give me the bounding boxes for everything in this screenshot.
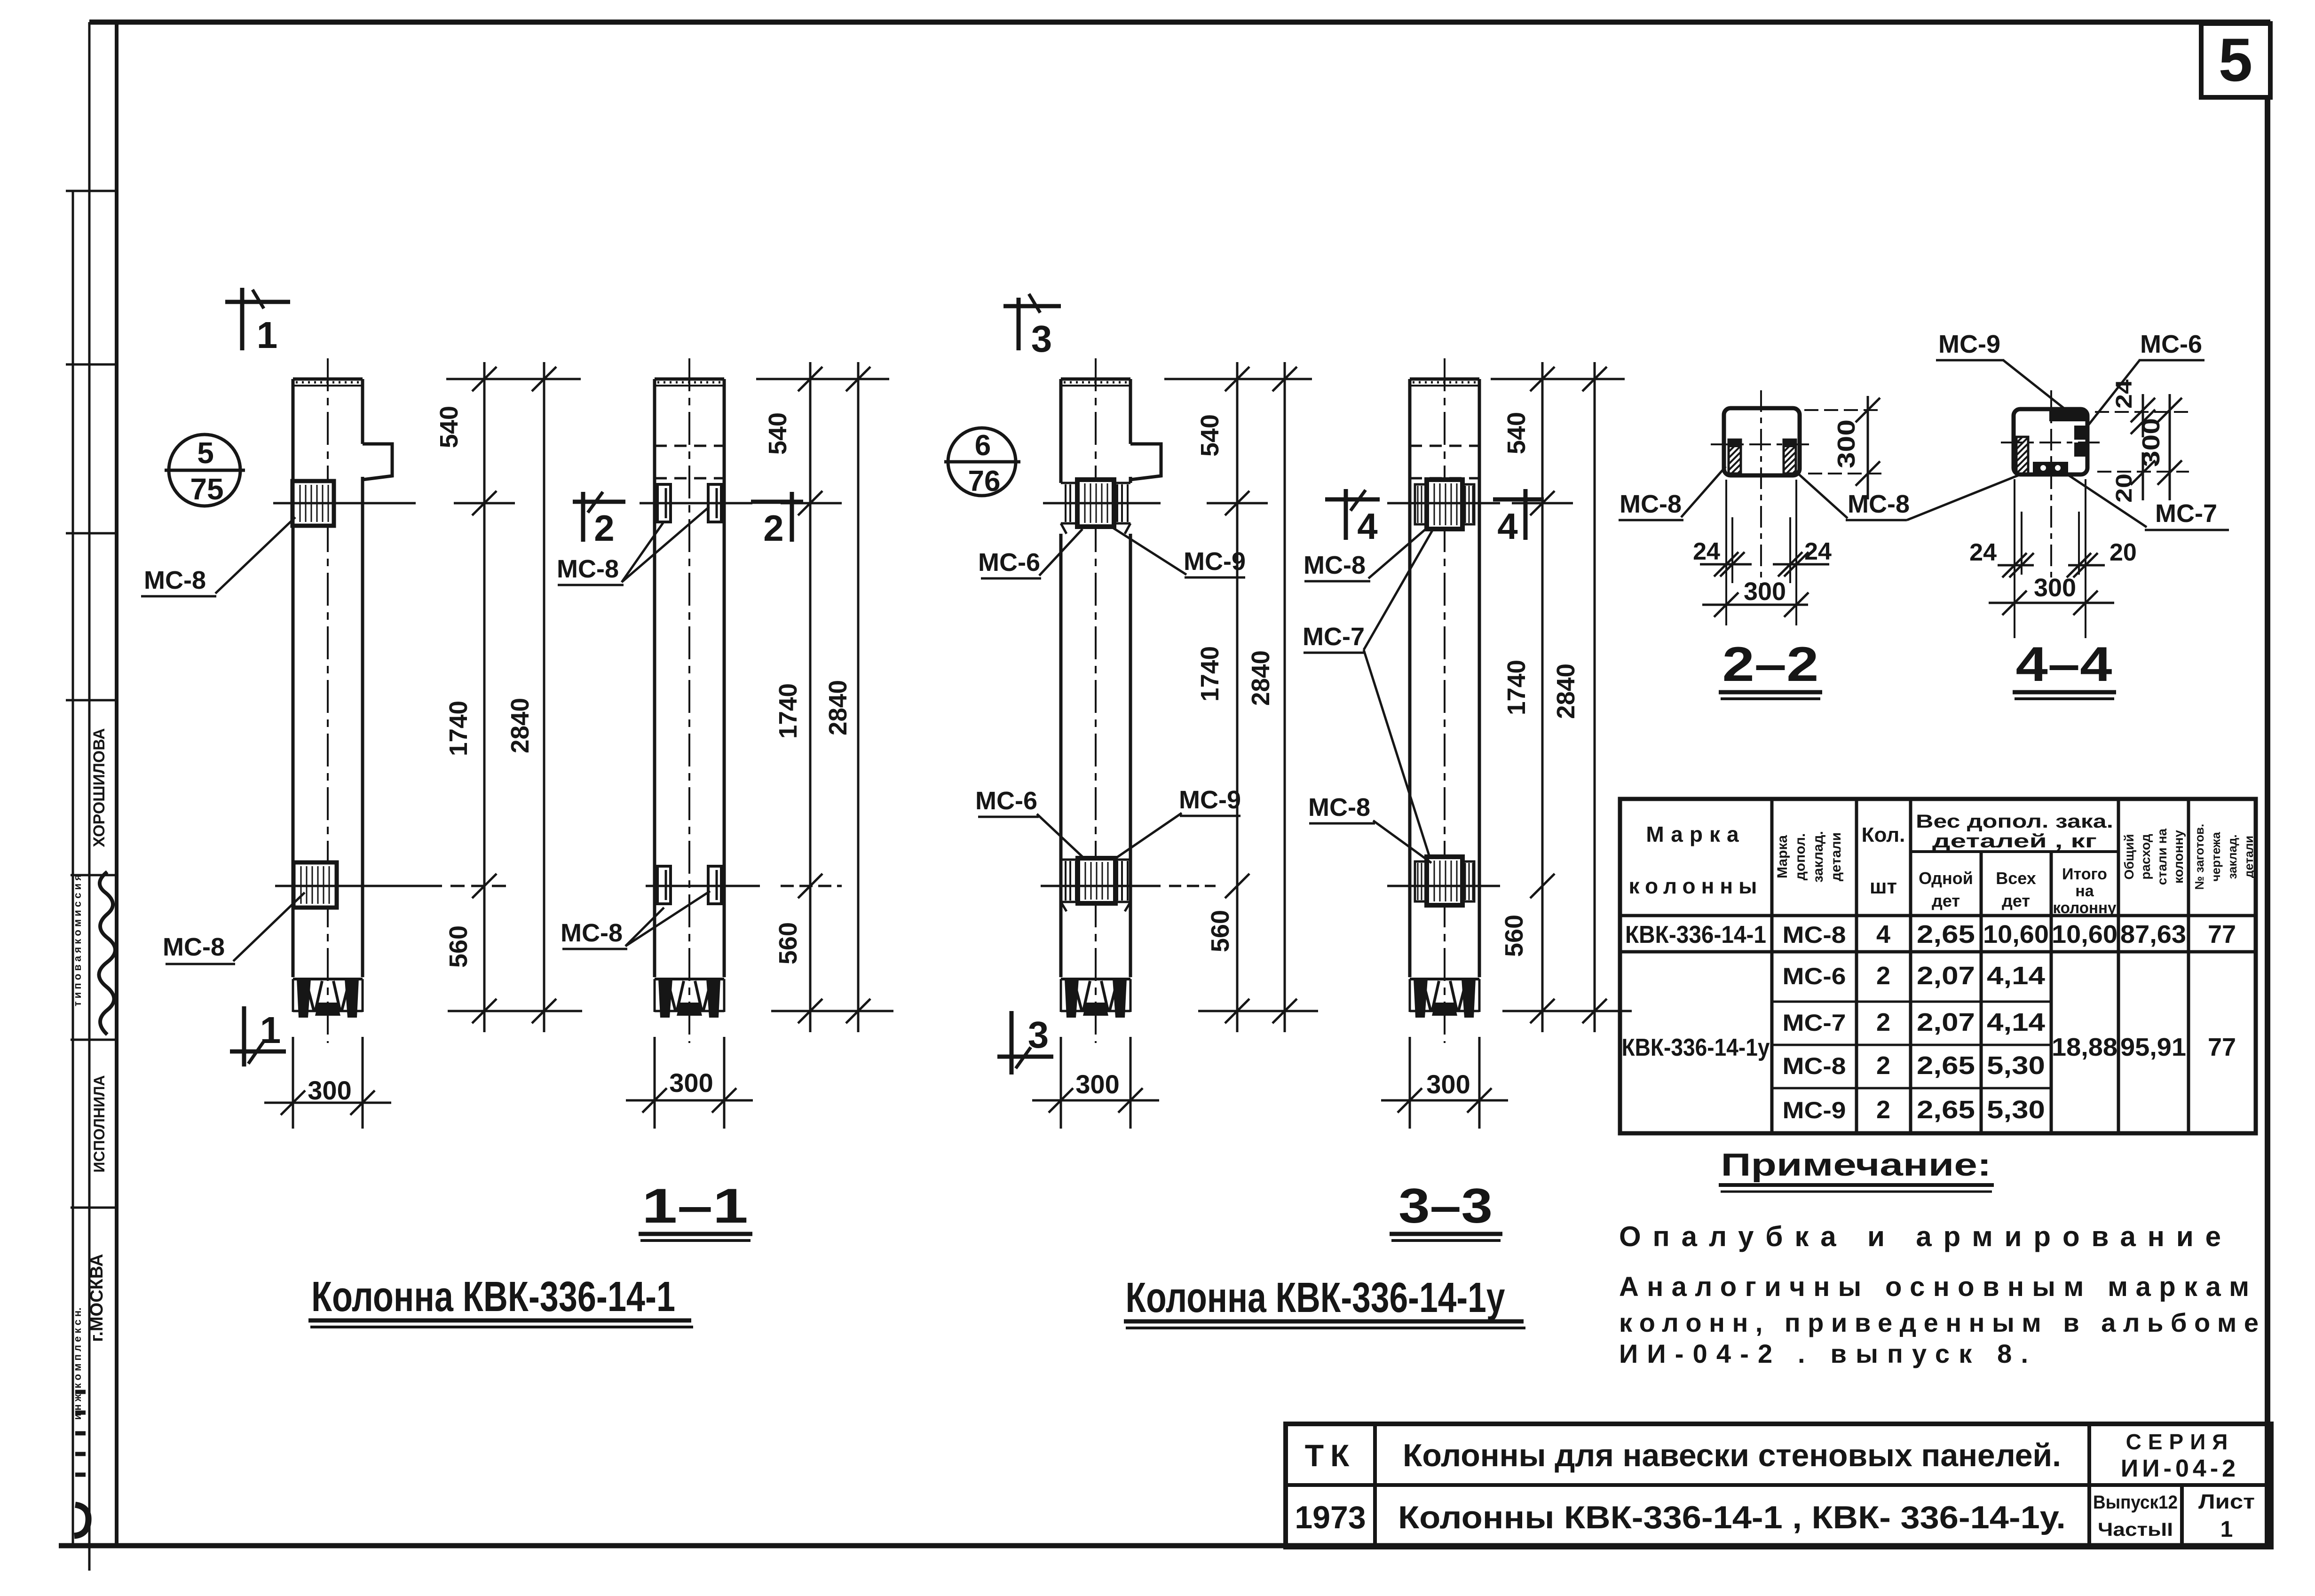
title block row divider <box>1286 1483 2271 1487</box>
svg-text:24: 24 <box>1693 538 1720 565</box>
svg-text:МС-9: МС-9 <box>1783 1097 1846 1123</box>
section 4-4 horizontal centerline <box>2001 442 2105 443</box>
column KVK-336-14-1u front view body <box>1059 379 1063 483</box>
svg-text:МС-8: МС-8 <box>1783 1053 1846 1079</box>
svg-text:24: 24 <box>1969 539 1997 566</box>
leader MC-9 lower <box>1116 813 1182 858</box>
svg-text:Марка: Марка <box>1646 822 1745 846</box>
strip divider 4 <box>71 874 117 877</box>
svg-text:540: 540 <box>764 412 792 455</box>
svg-text:300: 300 <box>2034 574 2076 602</box>
strip divider 1 <box>66 363 117 366</box>
column KVK-336-14-1 front view body <box>292 379 295 977</box>
svg-text:колонну: колонну <box>2171 830 2186 884</box>
svg-text:3: 3 <box>1031 318 1052 360</box>
svg-text:МС-7: МС-7 <box>1783 1010 1846 1036</box>
svg-text:18,88: 18,88 <box>2052 1033 2117 1061</box>
svg-text:детали: детали <box>2242 836 2256 878</box>
centerline through lower embeds (col4) <box>1387 885 1500 887</box>
svg-text:560: 560 <box>774 922 802 964</box>
svg-text:МС-6: МС-6 <box>975 787 1037 815</box>
column centerline (vertical) <box>327 358 329 1043</box>
svg-text:расход: расход <box>2138 834 2153 879</box>
svg-text:1740: 1740 <box>1196 646 1224 702</box>
svg-text:Колонна КВК-336-14-1у: Колонна КВК-336-14-1у <box>1126 1274 1505 1321</box>
svg-text:1740: 1740 <box>1502 660 1531 715</box>
svg-text:560: 560 <box>1500 915 1528 957</box>
table vertical lines <box>1770 799 1774 1133</box>
svg-text:300: 300 <box>1426 1069 1470 1099</box>
svg-text:колонну: колонну <box>2053 899 2117 917</box>
svg-text:4: 4 <box>1357 506 1377 547</box>
dimension line 2840 (col4) <box>1594 362 1596 1032</box>
svg-text:2,65: 2,65 <box>1917 1051 1975 1080</box>
column foot (col4) <box>1410 978 1479 980</box>
svg-text:Общий: Общий <box>2122 834 2136 879</box>
table subrow dividers <box>1772 1001 2051 1003</box>
svg-text:ТК: ТК <box>1305 1438 1356 1473</box>
svg-text:2: 2 <box>1876 1051 1890 1080</box>
svg-text:3: 3 <box>1028 1014 1049 1056</box>
leader MC-9 (section 4-4) <box>2003 360 2066 410</box>
svg-text:2: 2 <box>594 507 614 549</box>
title block col divider 1 <box>1373 1424 1377 1547</box>
svg-text:МС-9: МС-9 <box>1179 786 1241 814</box>
svg-text:стали на: стали на <box>2155 829 2169 885</box>
embed plate MC-6/MC-9 lower (front) <box>1078 858 1115 903</box>
border frame left <box>115 22 119 1546</box>
strip divider 3 <box>66 699 117 702</box>
svg-text:деталей , кг: деталей , кг <box>1932 831 2097 852</box>
centerline through upper assembly <box>1043 502 1161 505</box>
lower embed assembly hatch band (col3) <box>1061 859 1130 861</box>
embed plate MC-8 upper-left (edge) <box>657 484 671 522</box>
svg-text:2,65: 2,65 <box>1917 920 1975 948</box>
detail circle 6/76 <box>948 428 1016 496</box>
dimension 24 right (2-2) <box>1773 563 1829 566</box>
svg-text:20: 20 <box>2112 474 2137 503</box>
svg-text:4: 4 <box>1497 506 1517 547</box>
svg-text:5,30: 5,30 <box>1987 1051 2045 1080</box>
svg-text:560: 560 <box>444 925 473 968</box>
svg-text:МС-8: МС-8 <box>144 566 206 594</box>
svg-text:Одной: Одной <box>1919 869 1973 888</box>
svg-text:2840: 2840 <box>1552 664 1580 719</box>
bottom tick line (col4) <box>1502 1010 1632 1012</box>
title block frame <box>1286 1424 2271 1547</box>
dimension line 540/1740/560 (col3) <box>1236 362 1239 1032</box>
svg-text:ХОРОШИЛОВА: ХОРОШИЛОВА <box>90 728 108 847</box>
lower embed side hatch left (col4) <box>1415 861 1427 901</box>
svg-text:МС-6: МС-6 <box>1783 963 1846 989</box>
column KVK-336-14-1u side view body <box>1408 379 1412 977</box>
svg-text:т и п о в а я к о м и с с и: т и п о в а я к о м и с с и я <box>71 875 83 1006</box>
svg-text:ИИ-04-2: ИИ-04-2 <box>2121 1455 2239 1482</box>
svg-text:Итого: Итого <box>2062 865 2107 883</box>
leader MC-6 (section 4-4) <box>2086 360 2140 427</box>
svg-text:ИСПОЛНИЛА: ИСПОЛНИЛА <box>91 1075 108 1172</box>
svg-text:2840: 2840 <box>824 680 852 735</box>
tick at 540 (col2) <box>781 502 842 505</box>
section 2-2 horizontal centerline <box>1711 443 1809 445</box>
section cut line 2-2 <box>640 502 752 505</box>
title block col divider 2 <box>2087 1424 2091 1547</box>
column foot (side view) <box>655 978 724 980</box>
embed plate MC-8 lower (col4) <box>1427 857 1462 905</box>
leader MC-6 upper <box>1039 529 1082 576</box>
table header sub divider <box>1911 850 2118 853</box>
centerline through lower assembly (col3) <box>1041 885 1161 887</box>
svg-text:Колонны КВК-336-14-1 , КВК-: Колонны КВК-336-14-1 , КВК- 336-14-1у. <box>1398 1500 2066 1535</box>
svg-text:2: 2 <box>763 507 783 549</box>
svg-text:300: 300 <box>1833 419 1860 468</box>
svg-text:75: 75 <box>190 472 223 506</box>
svg-text:№ заготов.: № заготов. <box>2192 824 2206 890</box>
svg-text:4: 4 <box>1876 920 1890 948</box>
svg-text:95,91: 95,91 <box>2120 1033 2186 1061</box>
svg-text:Колонна КВК-336-14-1: Колонна КВК-336-14-1 <box>311 1273 675 1320</box>
dimension 24 top right (4-4) <box>2095 411 2189 413</box>
table row 1 bottom line <box>1620 950 2256 954</box>
strip divider 2 <box>66 532 117 535</box>
svg-text:Всех: Всех <box>1996 869 2036 888</box>
svg-text:560: 560 <box>1206 910 1234 952</box>
svg-text:4–4: 4–4 <box>2016 637 2112 692</box>
section mark 1 (top) <box>225 300 290 304</box>
svg-text:87,63: 87,63 <box>2120 920 2186 948</box>
svg-text:чертежа: чертежа <box>2209 832 2223 882</box>
leader MC-8 lower pair <box>625 908 664 946</box>
leader MC-8 upper pair <box>622 523 663 582</box>
svg-text:СЕРИЯ: СЕРИЯ <box>2126 1430 2235 1454</box>
dimension 300 bottom (4-4) <box>1989 602 2114 604</box>
svg-text:Лист: Лист <box>2198 1490 2255 1513</box>
tick at 540 (col4) <box>1512 502 1573 505</box>
left strip inner line <box>88 22 91 1571</box>
svg-text:540: 540 <box>1196 414 1224 457</box>
svg-text:Примечание:: Примечание: <box>1721 1147 1991 1183</box>
svg-text:4,14: 4,14 <box>1987 962 2045 990</box>
svg-text:МС-9: МС-9 <box>1938 330 2000 358</box>
column foot (col3) <box>1061 978 1130 980</box>
svg-text:дет: дет <box>2002 891 2030 910</box>
svg-text:5,30: 5,30 <box>1987 1096 2045 1124</box>
leader MC-8 left (section 2-2) <box>1681 466 1726 517</box>
svg-text:Колонны для навески стеновы: Колонны для навески стеновых панелей. <box>1403 1438 2061 1473</box>
svg-text:300: 300 <box>1075 1069 1119 1099</box>
leader MC-8 upper <box>215 517 295 593</box>
embed plate MC-8 lower-left (edge) <box>657 866 671 904</box>
dimension 300 (bottom, col1) <box>292 1037 294 1129</box>
leader MC-8 lower (col4) <box>1373 821 1431 863</box>
dimension 300 (bottom, col3) <box>1060 1037 1062 1129</box>
svg-text:детали: детали <box>1828 832 1844 881</box>
svg-text:1: 1 <box>257 314 278 356</box>
tick at 540 (col1) <box>454 502 515 505</box>
leader MC-8 middle to 4-4 left plate <box>1907 475 2019 520</box>
svg-text:1: 1 <box>260 1009 281 1051</box>
strip bottom dashes <box>75 1390 86 1394</box>
section 4-4 outline <box>2014 409 2087 474</box>
dimension 300 (bottom, col4) <box>1409 1037 1411 1129</box>
section mark 2 left <box>573 500 625 504</box>
column KVK-336-14-1 side view body <box>653 379 656 977</box>
section mark 3 (bottom) <box>1010 1011 1014 1075</box>
svg-text:77: 77 <box>2208 1033 2236 1061</box>
svg-text:МС-8: МС-8 <box>1308 793 1370 822</box>
strip signature squiggle <box>99 872 115 1035</box>
centerline through lower plate <box>275 885 442 887</box>
tick at 1740 (col1) <box>472 874 497 898</box>
svg-text:24: 24 <box>1804 538 1832 565</box>
svg-text:МС-8: МС-8 <box>163 933 225 961</box>
column centerline side view <box>688 358 690 1043</box>
embed plate MC-6/MC-9 upper (front) <box>1077 480 1114 527</box>
extension lines bottom (2-2) <box>1725 480 1727 625</box>
svg-text:20: 20 <box>2110 539 2137 566</box>
svg-text:1740: 1740 <box>774 683 802 739</box>
section 4-4 vertical centerline <box>2050 390 2052 588</box>
svg-text:4,14: 4,14 <box>1987 1008 2045 1036</box>
svg-text:76: 76 <box>968 465 1001 498</box>
section 2-2 outline <box>1724 408 1800 475</box>
svg-text:24: 24 <box>2112 379 2137 409</box>
svg-text:МС-8: МС-8 <box>1783 922 1846 948</box>
tick at 1740 (col3) <box>1225 874 1249 898</box>
embed plate MC-8 upper (front) <box>292 481 334 526</box>
svg-text:МС-8: МС-8 <box>557 555 619 583</box>
table header bottom line <box>1620 914 2256 917</box>
bottom tick line (col3) <box>1198 1010 1318 1012</box>
section 4-4 plate MC-6 right (black) <box>2074 426 2086 440</box>
dimension 300 bottom (2-2) <box>1702 604 1808 606</box>
column centerline (col3) <box>1095 358 1097 1043</box>
leader MC-9 upper <box>1113 528 1186 575</box>
svg-text:колонны: колонны <box>1629 874 1763 898</box>
svg-text:300: 300 <box>1744 577 1786 606</box>
upper embed side hatch right <box>1462 484 1474 524</box>
top tick line (col4) <box>1491 378 1625 380</box>
svg-text:ЧастьII: ЧастьII <box>2098 1519 2173 1540</box>
section mark 2 right <box>751 500 803 504</box>
hidden line bracket bottom <box>655 477 724 480</box>
leader MC-8 lower <box>233 893 305 961</box>
svg-text:2,65: 2,65 <box>1917 1096 1975 1124</box>
section 2-2 plate MC-8 left <box>1729 440 1741 474</box>
svg-text:МС-7: МС-7 <box>1303 623 1365 651</box>
svg-text:допол.: допол. <box>1793 833 1808 880</box>
svg-text:заклад.: заклад. <box>2225 834 2239 879</box>
svg-text:540: 540 <box>435 406 463 448</box>
svg-text:МС-6: МС-6 <box>2140 330 2202 358</box>
svg-text:МС-6: МС-6 <box>978 548 1040 577</box>
svg-text:2: 2 <box>1876 1008 1890 1036</box>
svg-text:Кол.: Кол. <box>1862 823 1905 846</box>
column foot <box>293 978 363 980</box>
detail circle 5/75 <box>169 435 240 506</box>
console bracket <box>363 444 392 480</box>
section mark 4 left <box>1325 498 1380 502</box>
leader MC-7 (section 4-4) <box>2068 475 2147 527</box>
section 4-4 plate MC-8 left (hatched) <box>2016 437 2028 474</box>
svg-text:КВК-336-14-1у: КВК-336-14-1у <box>1622 1034 1770 1061</box>
extension lines bottom (4-4) <box>2014 479 2015 638</box>
tick at 1740 (col2) <box>781 885 842 887</box>
left strip outer line <box>72 191 74 1546</box>
dimension 24 left (2-2) <box>1700 563 1752 566</box>
upper embed side hatch left <box>1415 484 1427 524</box>
section mark 3 (top) <box>1003 304 1061 308</box>
dimension 20 bottom right (4-4) <box>2068 564 2105 567</box>
section cut line 4-4 <box>1387 502 1500 505</box>
svg-text:на: на <box>2075 882 2094 900</box>
border frame bottom <box>59 1543 2271 1549</box>
leader MC-6 lower <box>1037 814 1082 857</box>
embed plate MC-8 upper-right (edge) <box>708 484 721 522</box>
svg-text:1740: 1740 <box>444 701 473 756</box>
dimension 300 vertical (2-2) <box>1804 409 1883 411</box>
strip divider 5 <box>71 1039 117 1041</box>
title block col divider 3 <box>2180 1485 2184 1547</box>
section 2-2 plate MC-8 right <box>1784 440 1796 474</box>
svg-text:1: 1 <box>2220 1517 2233 1542</box>
svg-text:МС-8: МС-8 <box>561 919 623 947</box>
svg-text:МС-8: МС-8 <box>1620 490 1682 518</box>
svg-text:2840: 2840 <box>506 698 534 753</box>
dimension 20 right (4-4) <box>2097 471 2189 473</box>
svg-text:Выпуск12: Выпуск12 <box>2093 1492 2178 1513</box>
page number box <box>2201 24 2270 97</box>
svg-text:2,07: 2,07 <box>1917 1008 1975 1036</box>
svg-text:77: 77 <box>2208 920 2236 948</box>
dimension 24 bottom left (4-4) <box>1998 564 2034 567</box>
top tick line (col2) <box>756 378 889 380</box>
svg-text:дет: дет <box>1932 891 1960 910</box>
section mark 4 right <box>1493 498 1544 502</box>
svg-text:5: 5 <box>2219 25 2252 94</box>
dimension 300 right (4-4) <box>2169 394 2171 500</box>
section 2-2 vertical centerline <box>1760 390 1762 588</box>
svg-text:10,60: 10,60 <box>1983 920 2049 948</box>
bottom tick line (col2) <box>771 1010 893 1012</box>
leader MC-7 long (col4) <box>1364 530 1432 650</box>
dimension line 540/1740/560 (col4) <box>1541 362 1544 1032</box>
column centerline (col4) <box>1444 358 1446 1043</box>
border frame right <box>2265 97 2270 1546</box>
svg-text:2: 2 <box>1876 1096 1890 1124</box>
leader MC-8 upper (col4) <box>1368 529 1426 578</box>
embed plate MC-8 lower (front) <box>293 862 337 908</box>
border frame top <box>89 20 2270 25</box>
dimension line 2840 (col3) <box>1284 362 1286 1032</box>
svg-text:3–3: 3–3 <box>1398 1179 1493 1233</box>
top tick line (col3) <box>1164 378 1312 380</box>
svg-text:г.МОСКВА: г.МОСКВА <box>87 1254 107 1342</box>
tick at 1740 (col4) <box>1530 874 1555 898</box>
hidden line bracket top (col4) <box>1410 445 1479 447</box>
bottom tick line (col1) <box>448 1010 582 1012</box>
svg-text:КВК-336-14-1: КВК-336-14-1 <box>1625 921 1766 948</box>
embed plate MC-8 lower-right (edge) <box>708 866 721 904</box>
centerline through lower plates <box>646 885 760 887</box>
hidden line bracket top <box>655 445 724 447</box>
svg-text:1973: 1973 <box>1295 1500 1366 1535</box>
tick at 540 (col3) <box>1207 502 1268 505</box>
dimension line 540/1740/560 (col2) <box>809 362 812 1032</box>
dimension line 2840 (col1) <box>543 362 545 1032</box>
centerline through upper plate <box>273 502 416 505</box>
dimension line 540/1740/560 (col1) <box>483 362 486 1032</box>
hidden line bracket bottom (col4) <box>1410 477 1479 480</box>
svg-text:2840: 2840 <box>1247 650 1275 706</box>
svg-text:МС-8: МС-8 <box>1848 490 1910 518</box>
svg-text:2: 2 <box>1876 962 1890 990</box>
table outer frame <box>1620 799 2256 1133</box>
svg-text:1–1: 1–1 <box>642 1179 748 1233</box>
section 4-4 plate MC-7 bottom (black) <box>2033 462 2068 474</box>
upper embed assembly hatch band <box>1061 482 1130 484</box>
dimension 300 (bottom, col2) <box>654 1037 656 1129</box>
svg-text:5: 5 <box>197 436 214 470</box>
dimension line 2840 (col2) <box>857 362 860 1032</box>
svg-text:10,60: 10,60 <box>2052 920 2117 948</box>
strip divider 0 <box>66 190 117 192</box>
strip bottom bracket glyph <box>74 1505 88 1536</box>
svg-text:шт: шт <box>1870 875 1897 898</box>
svg-text:300: 300 <box>308 1075 351 1105</box>
section 4-4 plate MC-9 top (black) <box>2049 409 2086 421</box>
lower embed side hatch right (col4) <box>1462 861 1474 901</box>
svg-text:540: 540 <box>1502 412 1531 454</box>
svg-text:2,07: 2,07 <box>1917 962 1975 990</box>
svg-text:и н ж. к о м п л е к с н.: и н ж. к о м п л е к с н. <box>71 1308 83 1420</box>
section mark 1 (bottom) <box>242 1006 246 1067</box>
svg-text:МС-8: МС-8 <box>1304 551 1366 579</box>
svg-text:МС-7: МС-7 <box>2155 499 2217 528</box>
svg-text:Марка: Марка <box>1775 835 1790 878</box>
embed plate MC-8 upper (col4) <box>1427 480 1462 529</box>
svg-text:300: 300 <box>669 1068 713 1098</box>
console bracket (col3) <box>1130 444 1161 480</box>
svg-text:6: 6 <box>975 429 991 462</box>
svg-text:2–2: 2–2 <box>1722 637 1819 692</box>
top tick line (col1) <box>446 378 581 380</box>
svg-text:заклад.: заклад. <box>1810 831 1826 883</box>
svg-text:Вес допол. зака.: Вес допол. зака. <box>1916 811 2113 832</box>
leader MC-8 middle to 2-2 right plate <box>1795 471 1848 518</box>
strip divider 6 <box>71 1207 117 1209</box>
svg-text:Опалубка и армирование: Опалубка и армирование <box>1619 1221 2221 1252</box>
